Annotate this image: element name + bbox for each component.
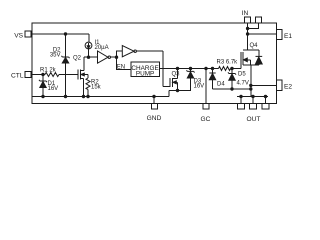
svg-text:20µA: 20µA: [95, 45, 109, 51]
svg-text:D5: D5: [238, 72, 246, 78]
svg-text:R3 6.7k: R3 6.7k: [217, 60, 239, 66]
svg-text:R1 2k: R1 2k: [40, 68, 57, 74]
svg-text:D4: D4: [217, 82, 225, 88]
svg-text:PUMP: PUMP: [136, 70, 154, 77]
svg-text:Q3: Q3: [172, 72, 181, 78]
svg-text:EN: EN: [117, 64, 125, 70]
svg-text:IN: IN: [242, 10, 249, 17]
svg-text:E2: E2: [284, 84, 292, 91]
svg-text:15k: 15k: [91, 84, 102, 90]
svg-text:E1: E1: [284, 33, 292, 40]
svg-text:Q4: Q4: [250, 43, 259, 49]
svg-text:Q2: Q2: [73, 55, 82, 61]
svg-text:4.7V: 4.7V: [237, 80, 249, 86]
svg-text:GND: GND: [147, 115, 162, 122]
svg-text:35V: 35V: [50, 53, 61, 59]
svg-text:GC: GC: [201, 116, 211, 123]
svg-text:VS: VS: [14, 33, 23, 40]
svg-text:CTL: CTL: [11, 73, 24, 80]
svg-text:16V: 16V: [48, 86, 59, 92]
svg-text:16V: 16V: [194, 83, 205, 89]
svg-text:OUT: OUT: [247, 116, 261, 123]
